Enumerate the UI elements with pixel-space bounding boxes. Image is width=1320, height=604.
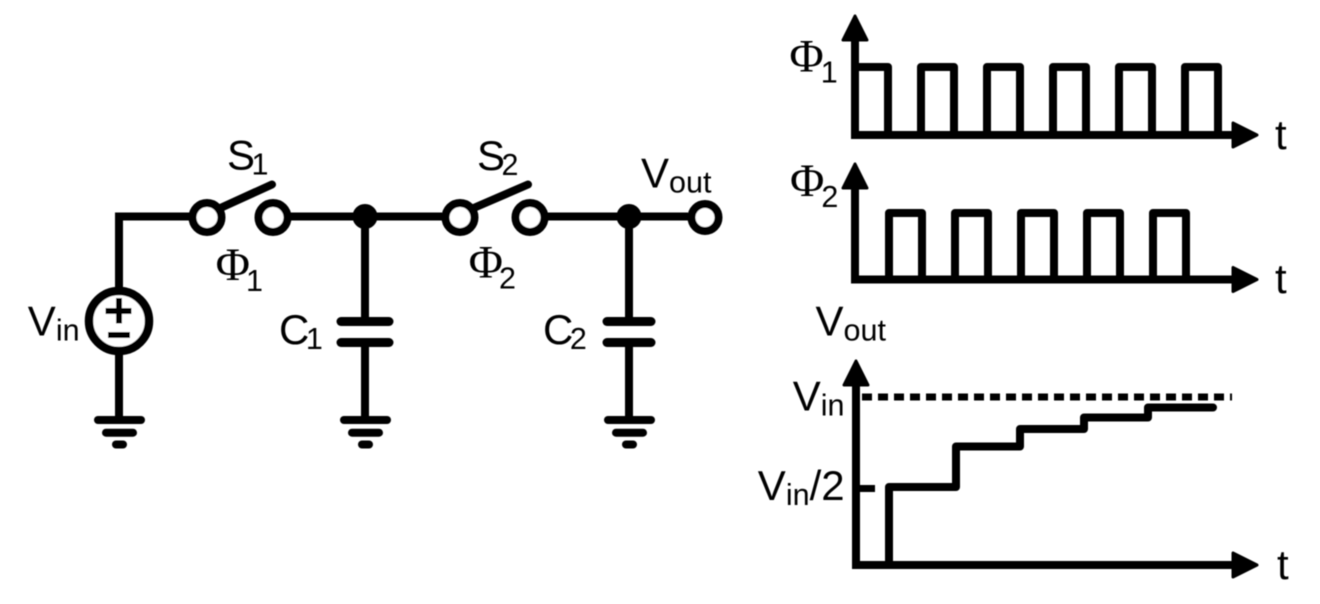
svg-text:t: t (1275, 255, 1287, 302)
svg-text:t: t (1275, 111, 1287, 158)
svg-text:t: t (1277, 541, 1289, 588)
